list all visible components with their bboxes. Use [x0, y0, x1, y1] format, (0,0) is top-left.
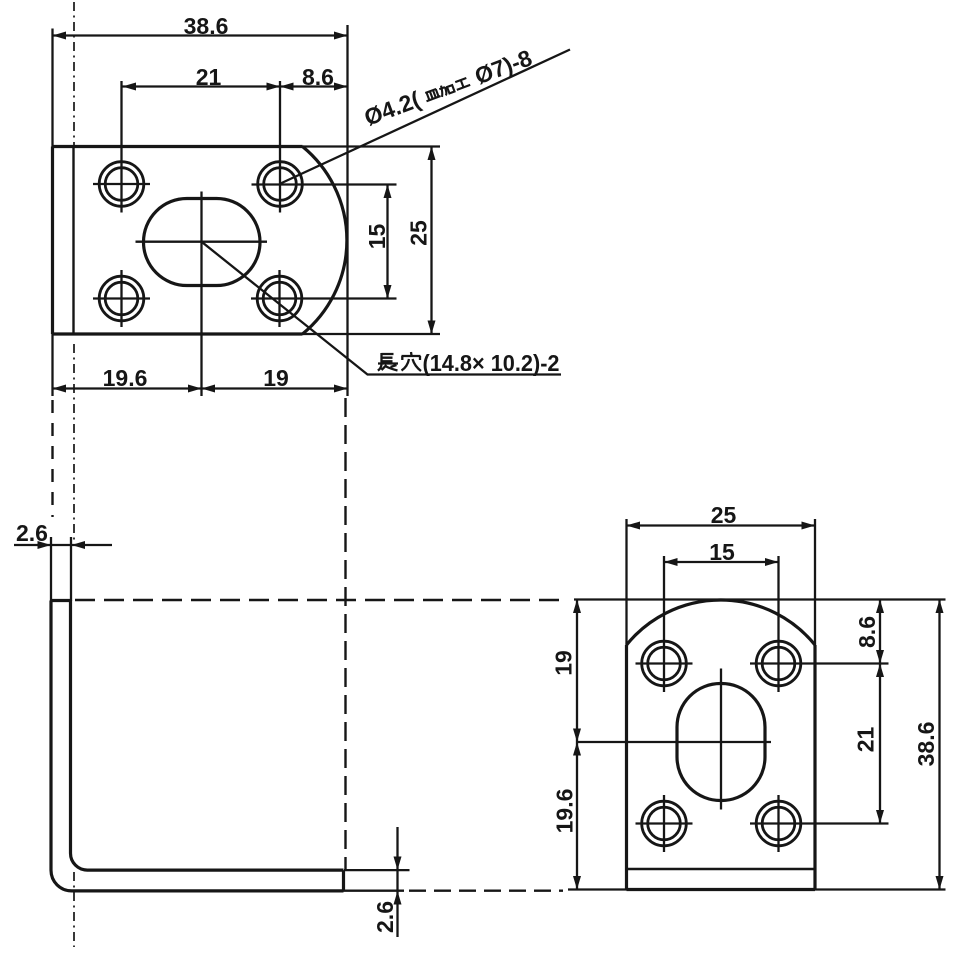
svg-text:15: 15	[709, 539, 735, 565]
leader callout holes	[281, 44, 571, 183]
dimension 15 right view	[664, 539, 779, 566]
L-profile side view	[51, 601, 344, 891]
svg-text:25: 25	[406, 220, 432, 246]
svg-text:21: 21	[853, 727, 879, 753]
plate outline right view	[627, 600, 816, 890]
svg-text:8.6: 8.6	[854, 616, 880, 648]
dimension 19.6 / 19 bottom of top view	[53, 334, 348, 396]
hidden line right vertical	[344, 398, 346, 870]
dimension 38.6 far right	[574, 600, 946, 890]
dimension 8.6 / 21 right of right view	[853, 600, 885, 824]
plate outline top view	[53, 147, 347, 335]
dimension 25 right view	[627, 502, 816, 645]
dimension 19 / 19.6 left of right view	[551, 600, 627, 890]
hidden line top of side view to right view	[75, 599, 563, 601]
hole B top-right	[252, 81, 397, 213]
dimension 38.6 top	[53, 13, 348, 396]
dimension 21 / 8.6 top	[123, 64, 348, 91]
hole E top-left right view	[636, 556, 693, 692]
svg-text:19.6: 19.6	[103, 365, 148, 391]
svg-text:19.6: 19.6	[552, 789, 578, 834]
hidden line below plate left	[51, 400, 53, 517]
dimension 2.6 side bottom	[344, 827, 410, 937]
hole C bottom-left	[93, 270, 150, 327]
svg-text:15: 15	[364, 224, 390, 250]
svg-text:19: 19	[551, 650, 577, 676]
bend line right view	[627, 868, 816, 870]
leader callout slot	[202, 242, 562, 376]
hole F top-right right view	[750, 556, 889, 692]
hole A top-left	[93, 81, 150, 213]
svg-text:25: 25	[711, 502, 737, 528]
svg-text:19: 19	[263, 365, 289, 391]
svg-text:2.6: 2.6	[372, 901, 398, 933]
svg-text:Ø4.2(: Ø4.2(	[361, 86, 424, 131]
svg-text:2.6: 2.6	[16, 520, 48, 546]
hole D bottom-right	[251, 270, 397, 327]
dimension 25 right of top view	[303, 147, 441, 335]
centerline bend axis (vertical dash-dot)	[73, 2, 75, 947]
dimension 2.6 side top	[14, 520, 112, 601]
svg-text:38.6: 38.6	[184, 13, 229, 39]
dimension 15 right of top view	[364, 185, 392, 299]
hole H bottom-right right view	[750, 795, 889, 852]
svg-text:(14.8× 10.2)-2: (14.8× 10.2)-2	[423, 350, 560, 376]
bend line top view	[72, 147, 74, 335]
svg-text:21: 21	[196, 64, 222, 90]
svg-text:Ø7)-8: Ø7)-8	[471, 44, 535, 89]
svg-text:38.6: 38.6	[913, 722, 939, 767]
slot (obround) right view	[577, 669, 771, 810]
hidden line bottom of side view to right view	[344, 890, 405, 892]
hole G bottom-left right view	[636, 795, 693, 852]
svg-text:8.6: 8.6	[302, 64, 334, 90]
slot (obround) top view	[136, 192, 268, 397]
